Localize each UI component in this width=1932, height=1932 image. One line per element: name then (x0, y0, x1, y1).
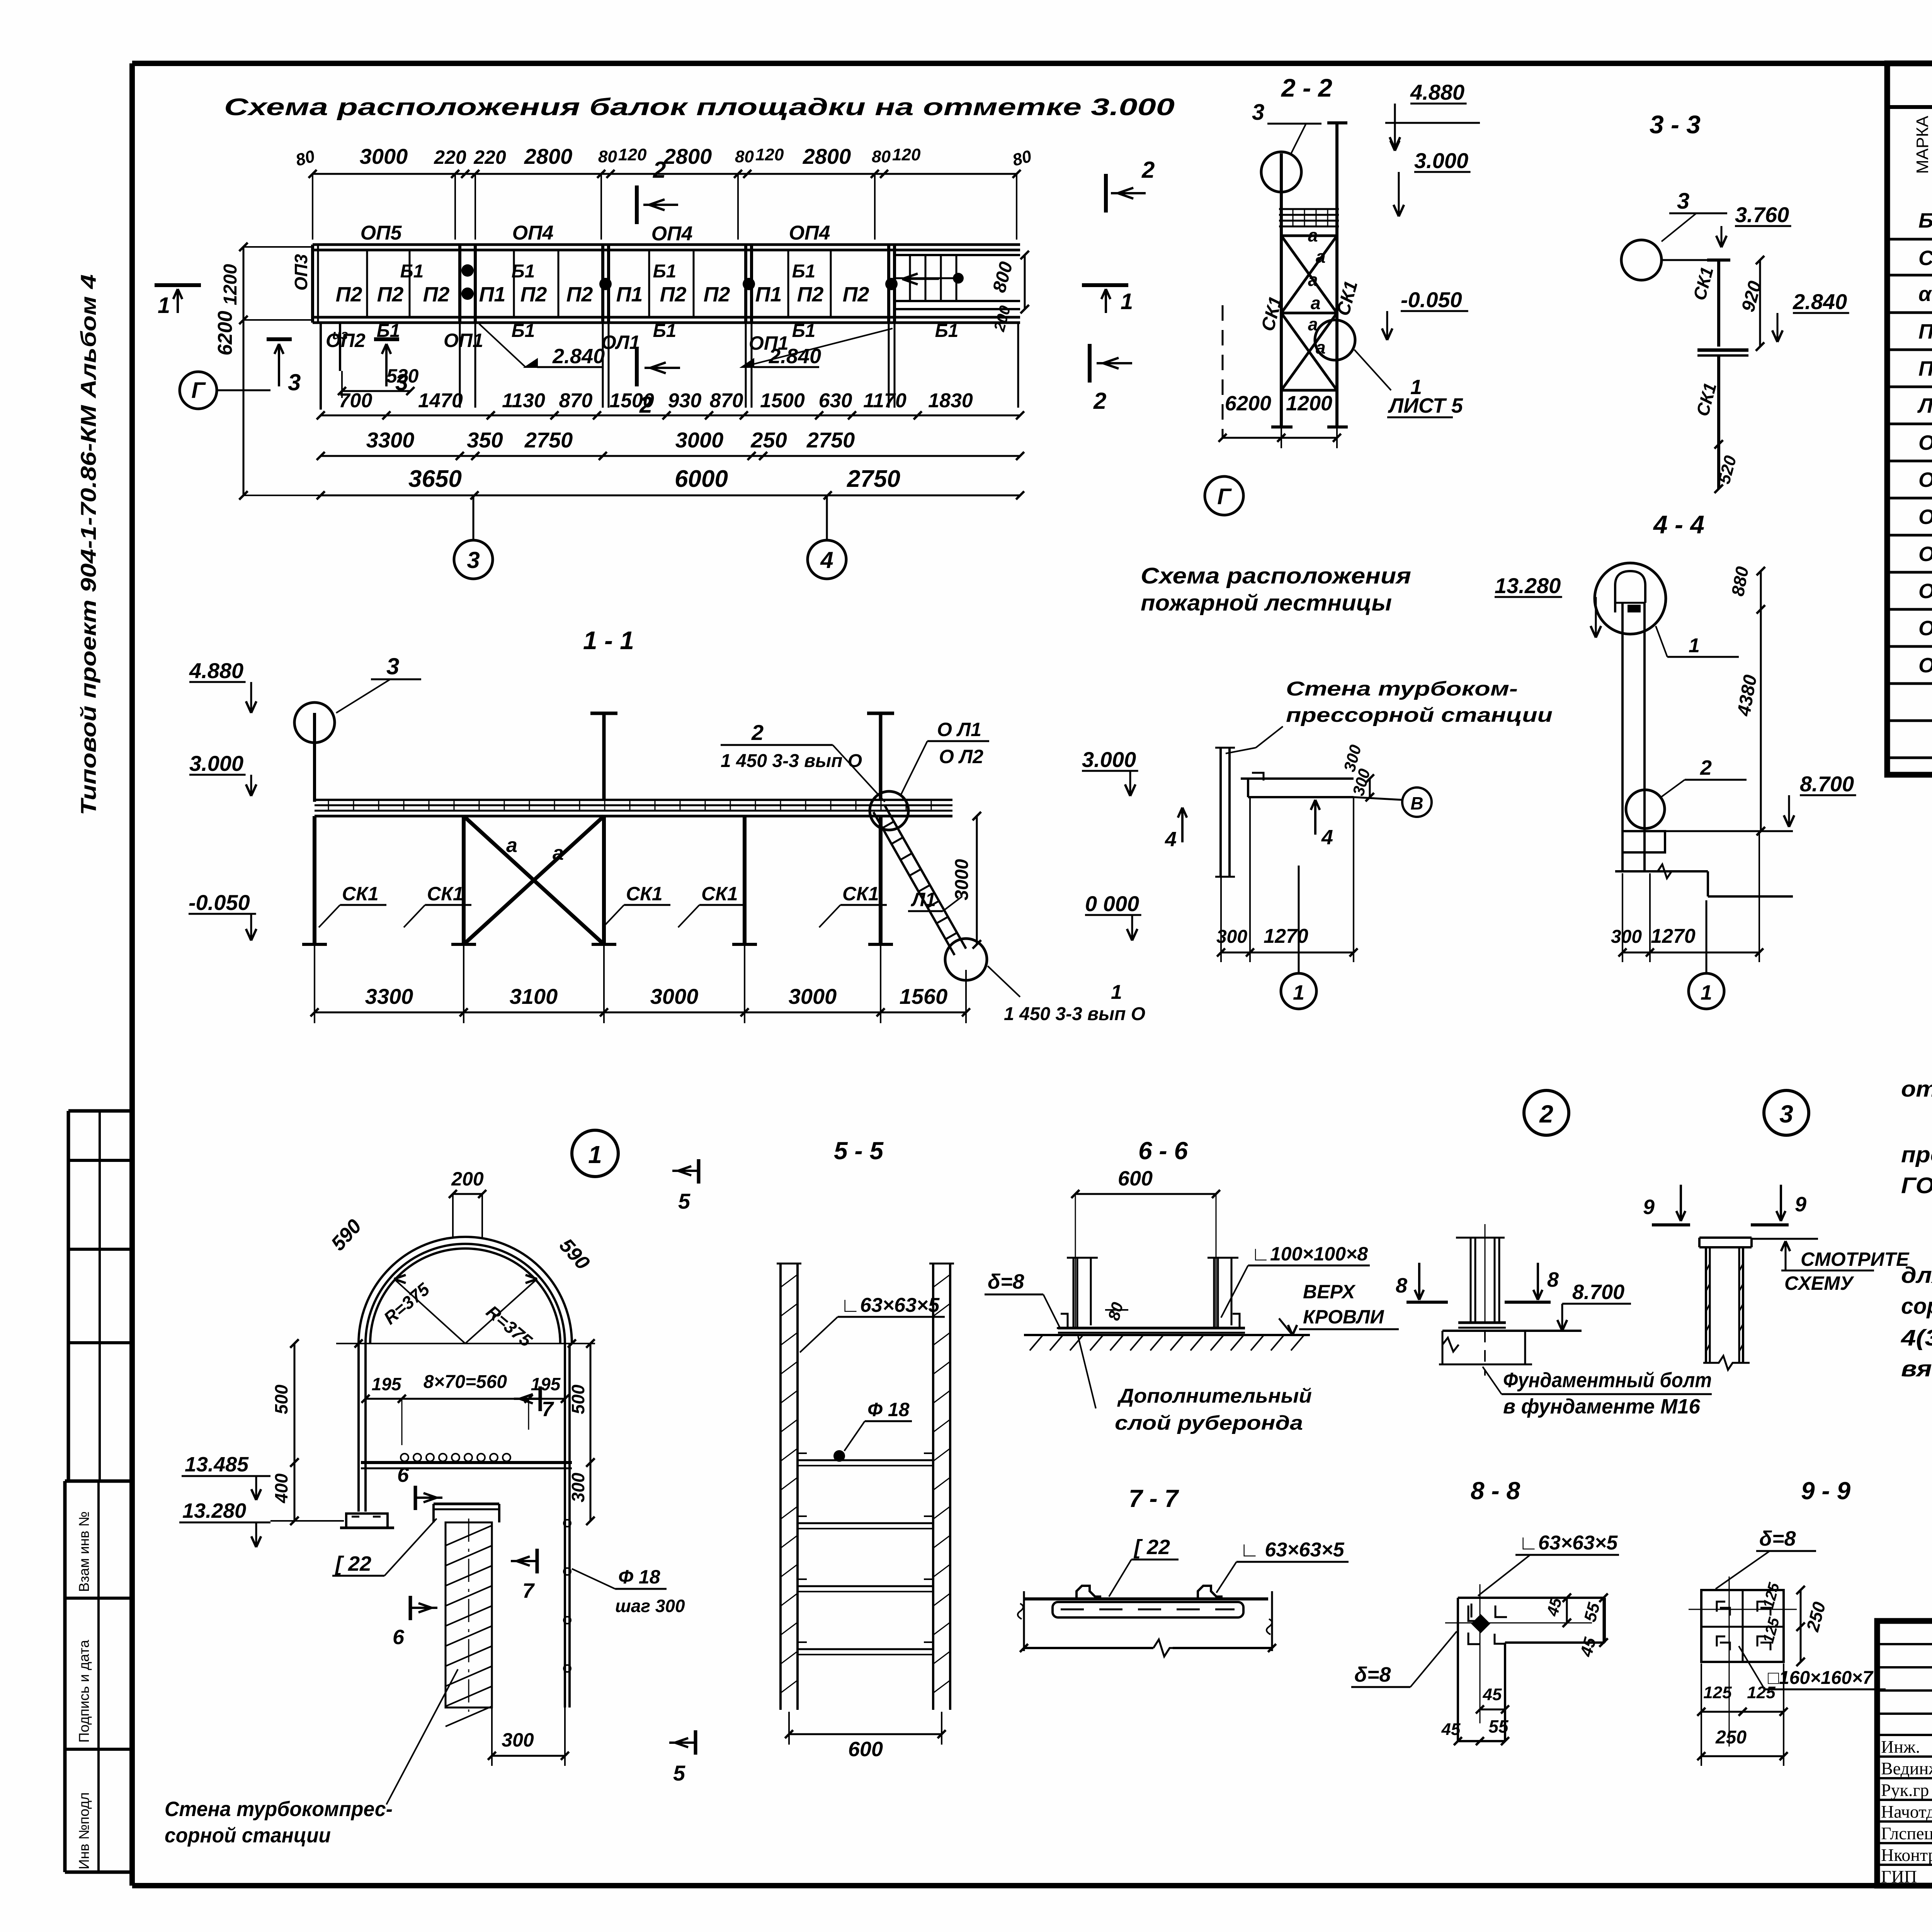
svg-text:3: 3 (386, 653, 399, 679)
svg-text:Стена турбоком-: Стена турбоком- (1286, 678, 1518, 700)
axis 4 circle (808, 540, 846, 579)
9-9 dims bottom (1701, 1711, 1784, 1713)
svg-text:2750: 2750 (524, 428, 573, 452)
svg-text:8 - 8: 8 - 8 (1471, 1477, 1520, 1505)
joint blobs on beams (461, 264, 474, 277)
svg-text:Б1: Б1 (792, 321, 816, 341)
svg-text:8: 8 (1396, 1274, 1407, 1297)
svg-text:Подпись и дата: Подпись и дата (76, 1639, 92, 1743)
svg-text:СХЕМУ: СХЕМУ (1784, 1272, 1855, 1294)
wall centerline dashdot (468, 1519, 469, 1712)
platform column posts (458, 245, 461, 323)
svg-text:3.000: 3.000 (1082, 747, 1136, 772)
svg-text:Нконтр: Нконтр (1881, 1845, 1932, 1865)
svg-text:ОЛ2: ОЛ2 (1918, 654, 1932, 677)
svg-text:3.760: 3.760 (1735, 202, 1789, 227)
4-4 node circle 2 (1626, 790, 1665, 828)
svg-text:2750: 2750 (806, 428, 855, 452)
svg-text:600: 600 (848, 1738, 883, 1761)
svg-text:1: 1 (1121, 289, 1133, 314)
node circle bottom list5 (1315, 320, 1355, 360)
svg-text:2: 2 (653, 157, 666, 183)
svg-text:П1: П1 (755, 283, 782, 306)
svg-text:3000: 3000 (789, 984, 837, 1009)
svg-text:2: 2 (751, 720, 764, 745)
section mark 3 left pair (267, 337, 292, 341)
svg-text:ГОСТ 9467- 75.: ГОСТ 9467- 75. (1901, 1173, 1932, 1198)
svg-text:930: 930 (668, 389, 702, 412)
svg-text:80: 80 (735, 147, 754, 166)
svg-text:1560: 1560 (900, 984, 948, 1009)
svg-text:250: 250 (750, 428, 787, 452)
svg-text:СК1: СК1 (701, 883, 738, 905)
3-3 lower column CK1 (1717, 355, 1720, 489)
svg-text:П1: П1 (479, 283, 506, 306)
svg-text:1: 1 (1293, 981, 1304, 1004)
svg-text:4.880: 4.880 (189, 658, 243, 683)
right leg holes (564, 1520, 571, 1527)
svg-text:2: 2 (639, 392, 652, 418)
svg-text:3: 3 (467, 547, 480, 573)
1-1 bottom dims (315, 1012, 966, 1014)
svg-text:П2: П2 (704, 283, 730, 306)
detail circle 2 (1524, 1090, 1569, 1135)
svg-text:3: 3 (1779, 1100, 1793, 1128)
6-6 posts (1073, 1258, 1075, 1328)
svg-text:a: a (553, 842, 564, 864)
svg-text:П2: П2 (566, 283, 593, 306)
4-4 ladder top hook (1615, 571, 1645, 612)
svg-text:500: 500 (271, 1384, 291, 1414)
8-8 dims bottom (1458, 1740, 1505, 1742)
4-4 ladder base bracket (1622, 831, 1665, 852)
8-8 base plate and foundation (1458, 1321, 1506, 1324)
svg-text:ОП5: ОП5 (361, 222, 402, 244)
8-8 dims right (1566, 1598, 1568, 1623)
axis 1 circle plan (1281, 973, 1316, 1009)
plan dim row 3 (321, 495, 1020, 497)
svg-text:0 000: 0 000 (1085, 891, 1139, 916)
6-6 base plate (1058, 1327, 1245, 1330)
svg-text:7 - 7: 7 - 7 (1129, 1485, 1179, 1512)
svg-text:1: 1 (1689, 634, 1700, 657)
detail circle 3 (1764, 1090, 1809, 1135)
svg-text:Глспец: Глспец (1881, 1823, 1932, 1843)
9-9 column hatched (1705, 1247, 1707, 1363)
svg-text:300: 300 (568, 1473, 588, 1502)
svg-text:-0.050: -0.050 (1401, 287, 1462, 312)
3-3 bottom dim 520 (1718, 444, 1720, 489)
arch right leg (564, 1344, 566, 1708)
svg-text:ЛИСТ 5: ЛИСТ 5 (1388, 394, 1463, 417)
svg-text:СК1: СК1 (626, 883, 663, 905)
svg-text:125: 125 (1703, 1683, 1732, 1702)
5-5 dim 600 (789, 1733, 942, 1735)
svg-text:О Л1: О Л1 (937, 719, 981, 740)
4-4 top node circle 1 (1595, 563, 1666, 634)
svg-text:[ 22: [ 22 (1133, 1536, 1170, 1559)
svg-text:3000: 3000 (650, 984, 699, 1009)
svg-text:СК1: СК1 (1918, 247, 1932, 270)
section 2-2 node circle top (1261, 152, 1301, 192)
svg-text:1170: 1170 (863, 389, 906, 412)
svg-text:сорной станции: сорной станции (165, 1824, 331, 1847)
svg-text:700: 700 (339, 389, 372, 412)
1-1 columns CK1 (313, 816, 316, 944)
svg-text:СК1: СК1 (427, 883, 464, 905)
svg-text:Рук.гр: Рук.гр (1881, 1780, 1929, 1800)
svg-text:П2: П2 (423, 283, 450, 306)
svg-text:П2: П2 (520, 283, 547, 306)
svg-text:1830: 1830 (928, 389, 973, 412)
svg-text:∟63×63×5: ∟63×63×5 (1519, 1532, 1618, 1554)
svg-text:П2: П2 (660, 283, 687, 306)
svg-text:Б1: Б1 (792, 261, 816, 282)
svg-text:Вединж: Вединж (1881, 1759, 1932, 1778)
svg-text:Схема расположения: Схема расположения (1141, 563, 1411, 588)
svg-text:4.880: 4.880 (1410, 80, 1464, 104)
wall plan double line (1219, 748, 1222, 877)
svg-text:4: 4 (820, 547, 833, 573)
svg-text:СК1: СК1 (842, 883, 879, 905)
svg-text:8: 8 (1547, 1268, 1559, 1291)
svg-text:1470: 1470 (418, 389, 463, 412)
svg-text:1130: 1130 (502, 389, 545, 412)
svg-text:45: 45 (1483, 1685, 1502, 1704)
svg-text:8.700: 8.700 (1800, 772, 1854, 796)
svg-text:прессорной станции: прессорной станции (1286, 704, 1553, 726)
svg-text:6200: 6200 (1225, 392, 1271, 415)
svg-text:6000: 6000 (675, 466, 728, 492)
section mark 1 right (1082, 283, 1128, 287)
svg-text:a: a (1308, 225, 1318, 245)
8-8 plate corner (1458, 1597, 1605, 1599)
lower bay verticals (320, 323, 322, 410)
1-1 dim 3000 rotated (976, 816, 978, 944)
svg-text:3: 3 (1677, 189, 1689, 214)
svg-text:195: 195 (531, 1374, 561, 1394)
svg-text:2: 2 (1700, 756, 1712, 779)
plan top dimension line (313, 173, 1017, 175)
1-1 node circle 3 (294, 702, 335, 743)
svg-text:∟ 63×63×5: ∟ 63×63×5 (1240, 1539, 1345, 1561)
7-7 channel body (1053, 1602, 1243, 1617)
5 section marks (697, 1159, 701, 1184)
svg-text:ОП3: ОП3 (291, 254, 311, 291)
1-1 ladder L1 (885, 806, 966, 949)
svg-text:Г: Г (191, 378, 206, 403)
6 section marks arch (414, 1486, 417, 1510)
6-6 dim 600 (1075, 1193, 1216, 1195)
4-4 base lines (1615, 870, 1708, 872)
platform bottom chord beams B1 (313, 316, 1020, 319)
svg-text:Ф 18: Ф 18 (618, 1566, 660, 1588)
svg-text:Стена турбокомпрес-: Стена турбокомпрес- (165, 1798, 393, 1821)
8-8 view arrows top (1418, 1263, 1420, 1297)
svg-text:δ=8: δ=8 (1354, 1663, 1391, 1686)
svg-text:Л1: Л1 (1917, 394, 1932, 417)
svg-text:слой руберонда: слой руберонда (1115, 1412, 1303, 1434)
7-7 break frame (1023, 1591, 1025, 1651)
svg-text:8×70=560: 8×70=560 (423, 1372, 507, 1392)
svg-text:200: 200 (451, 1168, 484, 1190)
svg-text:Б1: Б1 (512, 321, 535, 341)
svg-text:3 - 3: 3 - 3 (1650, 110, 1701, 139)
svg-text:П1: П1 (1918, 320, 1932, 343)
svg-text:13.485: 13.485 (185, 1453, 249, 1476)
plan left vertical dims (243, 247, 245, 495)
svg-text:5: 5 (673, 1761, 685, 1785)
side stamp lower boxes (65, 1480, 134, 1483)
wall hatched (446, 1522, 492, 1708)
B axis circle (1402, 787, 1432, 817)
arch right dims 500 300 (590, 1344, 592, 1521)
svg-text:a: a (1316, 247, 1326, 267)
svg-text:1: 1 (588, 1141, 602, 1168)
svg-text:80: 80 (872, 147, 891, 166)
svg-text:ОП4: ОП4 (789, 222, 830, 244)
section 2-2 bottom dims (1223, 437, 1337, 439)
svg-text:Дополнительный: Дополнительный (1117, 1385, 1312, 1407)
svg-text:3: 3 (288, 369, 301, 395)
vedomost marka rows (1887, 238, 1932, 241)
svg-text:8.700: 8.700 (1572, 1281, 1624, 1304)
8-8 inner angle clips (1468, 1604, 1507, 1621)
section 2-2 right chord (1335, 123, 1338, 427)
svg-text:Взам инв №: Взам инв № (76, 1511, 92, 1592)
svg-text:В: В (1410, 793, 1423, 813)
7-7 clips (1077, 1586, 1101, 1599)
svg-text:2.840: 2.840 (552, 345, 605, 368)
svg-text:производить электродами Э42: производить электродами Э42 по (1901, 1142, 1932, 1167)
svg-text:О Л2: О Л2 (939, 746, 983, 767)
svg-text:□160×160×7: □160×160×7 (1768, 1668, 1874, 1688)
svg-text:-0.050: -0.050 (189, 890, 250, 915)
svg-text:13.280: 13.280 (182, 1499, 246, 1522)
svg-text:80: 80 (598, 147, 617, 166)
svg-text:9: 9 (1643, 1196, 1655, 1219)
title block signature rows (1877, 1734, 1932, 1736)
svg-text:1200: 1200 (1286, 392, 1332, 415)
svg-text:шаг 300: шаг 300 (615, 1596, 685, 1616)
svg-text:120: 120 (755, 145, 784, 164)
1-1 column base plates (302, 943, 327, 946)
svg-text:3650: 3650 (408, 466, 462, 492)
svg-text:2: 2 (1539, 1100, 1553, 1128)
5-5 stringers (779, 1264, 782, 1710)
svg-text:2800: 2800 (803, 144, 851, 168)
axis 1 circle 4-4 (1689, 973, 1724, 1009)
svg-text:ОЛ1: ОЛ1 (1918, 617, 1932, 640)
svg-text:Л1: Л1 (911, 889, 936, 910)
8-8 bolt diamond (1472, 1615, 1489, 1632)
svg-text:ГИП: ГИП (1881, 1867, 1917, 1886)
svg-text:1200: 1200 (220, 264, 241, 305)
svg-text:6: 6 (393, 1626, 405, 1649)
svg-text:Ф 18: Ф 18 (867, 1399, 910, 1420)
plan dim row 1 (321, 415, 1020, 417)
svg-text:П2: П2 (843, 283, 869, 306)
base tick marks 2-2 (1271, 425, 1293, 429)
svg-text:3000: 3000 (952, 859, 972, 900)
svg-text:Г: Г (1217, 484, 1232, 509)
svg-text:1270: 1270 (1264, 925, 1308, 947)
3-3 column upper (1717, 260, 1720, 347)
svg-text:ОП2: ОП2 (1918, 468, 1932, 492)
section mark 2 bottom (635, 348, 639, 386)
svg-text:1500: 1500 (760, 389, 805, 412)
arch horizontal dim line y3477 (336, 1343, 595, 1344)
svg-text:Инж.: Инж. (1881, 1737, 1920, 1757)
svg-text:1: 1 (1111, 981, 1122, 1003)
svg-text:6200: 6200 (214, 311, 236, 355)
svg-text:4(3)К-500А и уточняется при: 4(3)К-500А и уточняется при при- (1901, 1325, 1932, 1350)
svg-text:250: 250 (1715, 1727, 1747, 1748)
svg-text:120: 120 (618, 145, 647, 164)
section mark 2 top (635, 185, 639, 224)
svg-text:500: 500 (568, 1384, 588, 1414)
svg-text:4: 4 (1321, 826, 1333, 849)
8-8 column I beam (1470, 1238, 1472, 1323)
svg-text:ВЕРХ: ВЕРХ (1303, 1281, 1356, 1303)
vedomost title row (1887, 105, 1932, 109)
svg-text:П2: П2 (336, 283, 362, 306)
3-3 base plate (1697, 349, 1748, 352)
plan bottom dims (1221, 952, 1354, 954)
svg-text:870: 870 (710, 389, 743, 412)
svg-text:из: из (332, 327, 348, 342)
stair flight in plan (895, 254, 1020, 256)
platform left edge beam OP3 (311, 245, 314, 323)
svg-text:5: 5 (678, 1189, 690, 1213)
svg-text:пожарной лестницы: пожарной лестницы (1141, 590, 1392, 616)
6-6 post base angles (1057, 1314, 1240, 1328)
svg-text:9 - 9: 9 - 9 (1801, 1477, 1850, 1505)
svg-text:ОП1: ОП1 (1918, 431, 1932, 454)
svg-text:3.000: 3.000 (189, 751, 243, 776)
svg-text:Фундаментный болт: Фундаментный болт (1503, 1369, 1712, 1392)
svg-text:сорной с турбокомпрессорными: сорной с турбокомпрессорными станциями (1901, 1294, 1932, 1319)
arch hoop outer arc (359, 1237, 572, 1344)
ladder plan lines (1241, 777, 1354, 780)
svg-text:9: 9 (1795, 1193, 1806, 1216)
svg-text:2750: 2750 (847, 466, 900, 492)
9-9 plate square (1701, 1590, 1784, 1662)
axis 3 circle (454, 540, 493, 579)
svg-text:2800: 2800 (663, 144, 712, 168)
5-5 rungs (798, 1459, 933, 1461)
arch bottom dim 300 (492, 1755, 565, 1757)
arch base plate left leg (346, 1514, 388, 1528)
svg-text:2 - 2: 2 - 2 (1281, 73, 1332, 102)
side stamp upper box grid (68, 1109, 134, 1113)
svg-text:7: 7 (522, 1579, 535, 1602)
svg-text:3100: 3100 (510, 984, 558, 1009)
svg-text:Начотд: Начотд (1881, 1802, 1932, 1821)
svg-text:870: 870 (559, 389, 593, 412)
svg-text:600: 600 (1118, 1167, 1153, 1190)
6-6 ground line with hatch (1024, 1334, 1310, 1336)
svg-text:Инв №подл: Инв №подл (76, 1792, 92, 1869)
svg-text:a: a (1308, 270, 1318, 290)
svg-text:3300: 3300 (365, 984, 413, 1009)
svg-text:3000: 3000 (675, 428, 724, 452)
svg-text:Схема расположения балок пл: Схема расположения балок площадки на отм… (224, 94, 1175, 121)
svg-text:Б1: Б1 (1918, 209, 1932, 232)
svg-text:Б1: Б1 (653, 261, 677, 282)
svg-text:СК1: СК1 (342, 883, 379, 905)
svg-text:ОЛ1: ОЛ1 (601, 332, 640, 353)
1-1 ladder node circles (870, 791, 908, 830)
title block upper empty rows (1877, 1643, 1932, 1645)
svg-text:5 - 5: 5 - 5 (834, 1137, 884, 1165)
arch left leg (357, 1344, 360, 1512)
svg-text:вязке проекта.: вязке проекта. (1901, 1356, 1932, 1381)
svg-text:δ=8: δ=8 (1759, 1527, 1796, 1550)
9-9 bolt symbols (1717, 1602, 1730, 1616)
detail circle 1 (572, 1130, 618, 1177)
svg-text:П1: П1 (616, 283, 643, 306)
1-1 deck (315, 799, 952, 801)
svg-text:45: 45 (1441, 1720, 1461, 1739)
vedomost table outer (1887, 63, 1932, 775)
svg-text:3: 3 (1252, 100, 1264, 125)
svg-text:a: a (506, 834, 517, 857)
title block outer (1877, 1621, 1932, 1886)
svg-text:1: 1 (1701, 981, 1712, 1004)
svg-text:П2: П2 (377, 283, 404, 306)
section 4 arrows plan (1181, 808, 1184, 842)
svg-text:отметке 3 000 qⁿ = 0 002 М: отметке 3 000 qⁿ = 0 002 МПа. (1901, 1077, 1932, 1102)
4-4 bottom dims (1622, 952, 1759, 954)
svg-text:6 - 6: 6 - 6 (1138, 1137, 1188, 1165)
arch top dim 200 (453, 1193, 482, 1195)
platform deck cell dividers (366, 250, 368, 317)
svg-text:6: 6 (397, 1463, 409, 1486)
svg-text:П2: П2 (797, 283, 824, 306)
svg-text:ОП5: ОП5 (1918, 580, 1932, 603)
section 2-2 axis G dashed (1222, 305, 1224, 438)
4-4 ladder stringers (1621, 603, 1624, 871)
section mark 2 right top (1104, 174, 1108, 213)
svg-text:ОП4: ОП4 (512, 222, 554, 244)
svg-text:1: 1 (158, 293, 170, 318)
dim 920 rotated (1759, 260, 1761, 347)
7-7 plate top flange (1025, 1597, 1268, 1600)
svg-text:2: 2 (1141, 157, 1155, 183)
section 2-2 left chord (1280, 153, 1283, 427)
9-9 dims right rotated (1800, 1590, 1802, 1662)
5-5 rung brackets (798, 1452, 933, 1454)
svg-text:δ=8: δ=8 (988, 1270, 1024, 1293)
svg-text:[ 22: [ 22 (335, 1552, 371, 1575)
svg-text:П2: П2 (1918, 357, 1932, 380)
svg-text:ОП1: ОП1 (444, 330, 483, 351)
section 2-2 platform deck (1279, 208, 1339, 210)
svg-text:350: 350 (467, 428, 503, 452)
svg-text:ОП4: ОП4 (651, 223, 693, 245)
svg-text:3: 3 (395, 369, 408, 395)
svg-text:2.840: 2.840 (1793, 289, 1847, 314)
svg-text:Типовой проект 904-1-70.86-: Типовой проект 904-1-70.86-КМ Альбом 4 (76, 274, 100, 815)
svg-text:1 450 3-3 вып О: 1 450 3-3 вып О (1004, 1004, 1145, 1024)
section mark 2 right bottom (1088, 344, 1092, 383)
hole row dim 195 560 195 (366, 1398, 565, 1400)
svg-text:220: 220 (473, 146, 506, 168)
svg-text:∟100×100×8: ∟100×100×8 (1251, 1243, 1368, 1265)
section 2-2 lattice (1281, 235, 1337, 237)
svg-text:300: 300 (502, 1729, 534, 1751)
